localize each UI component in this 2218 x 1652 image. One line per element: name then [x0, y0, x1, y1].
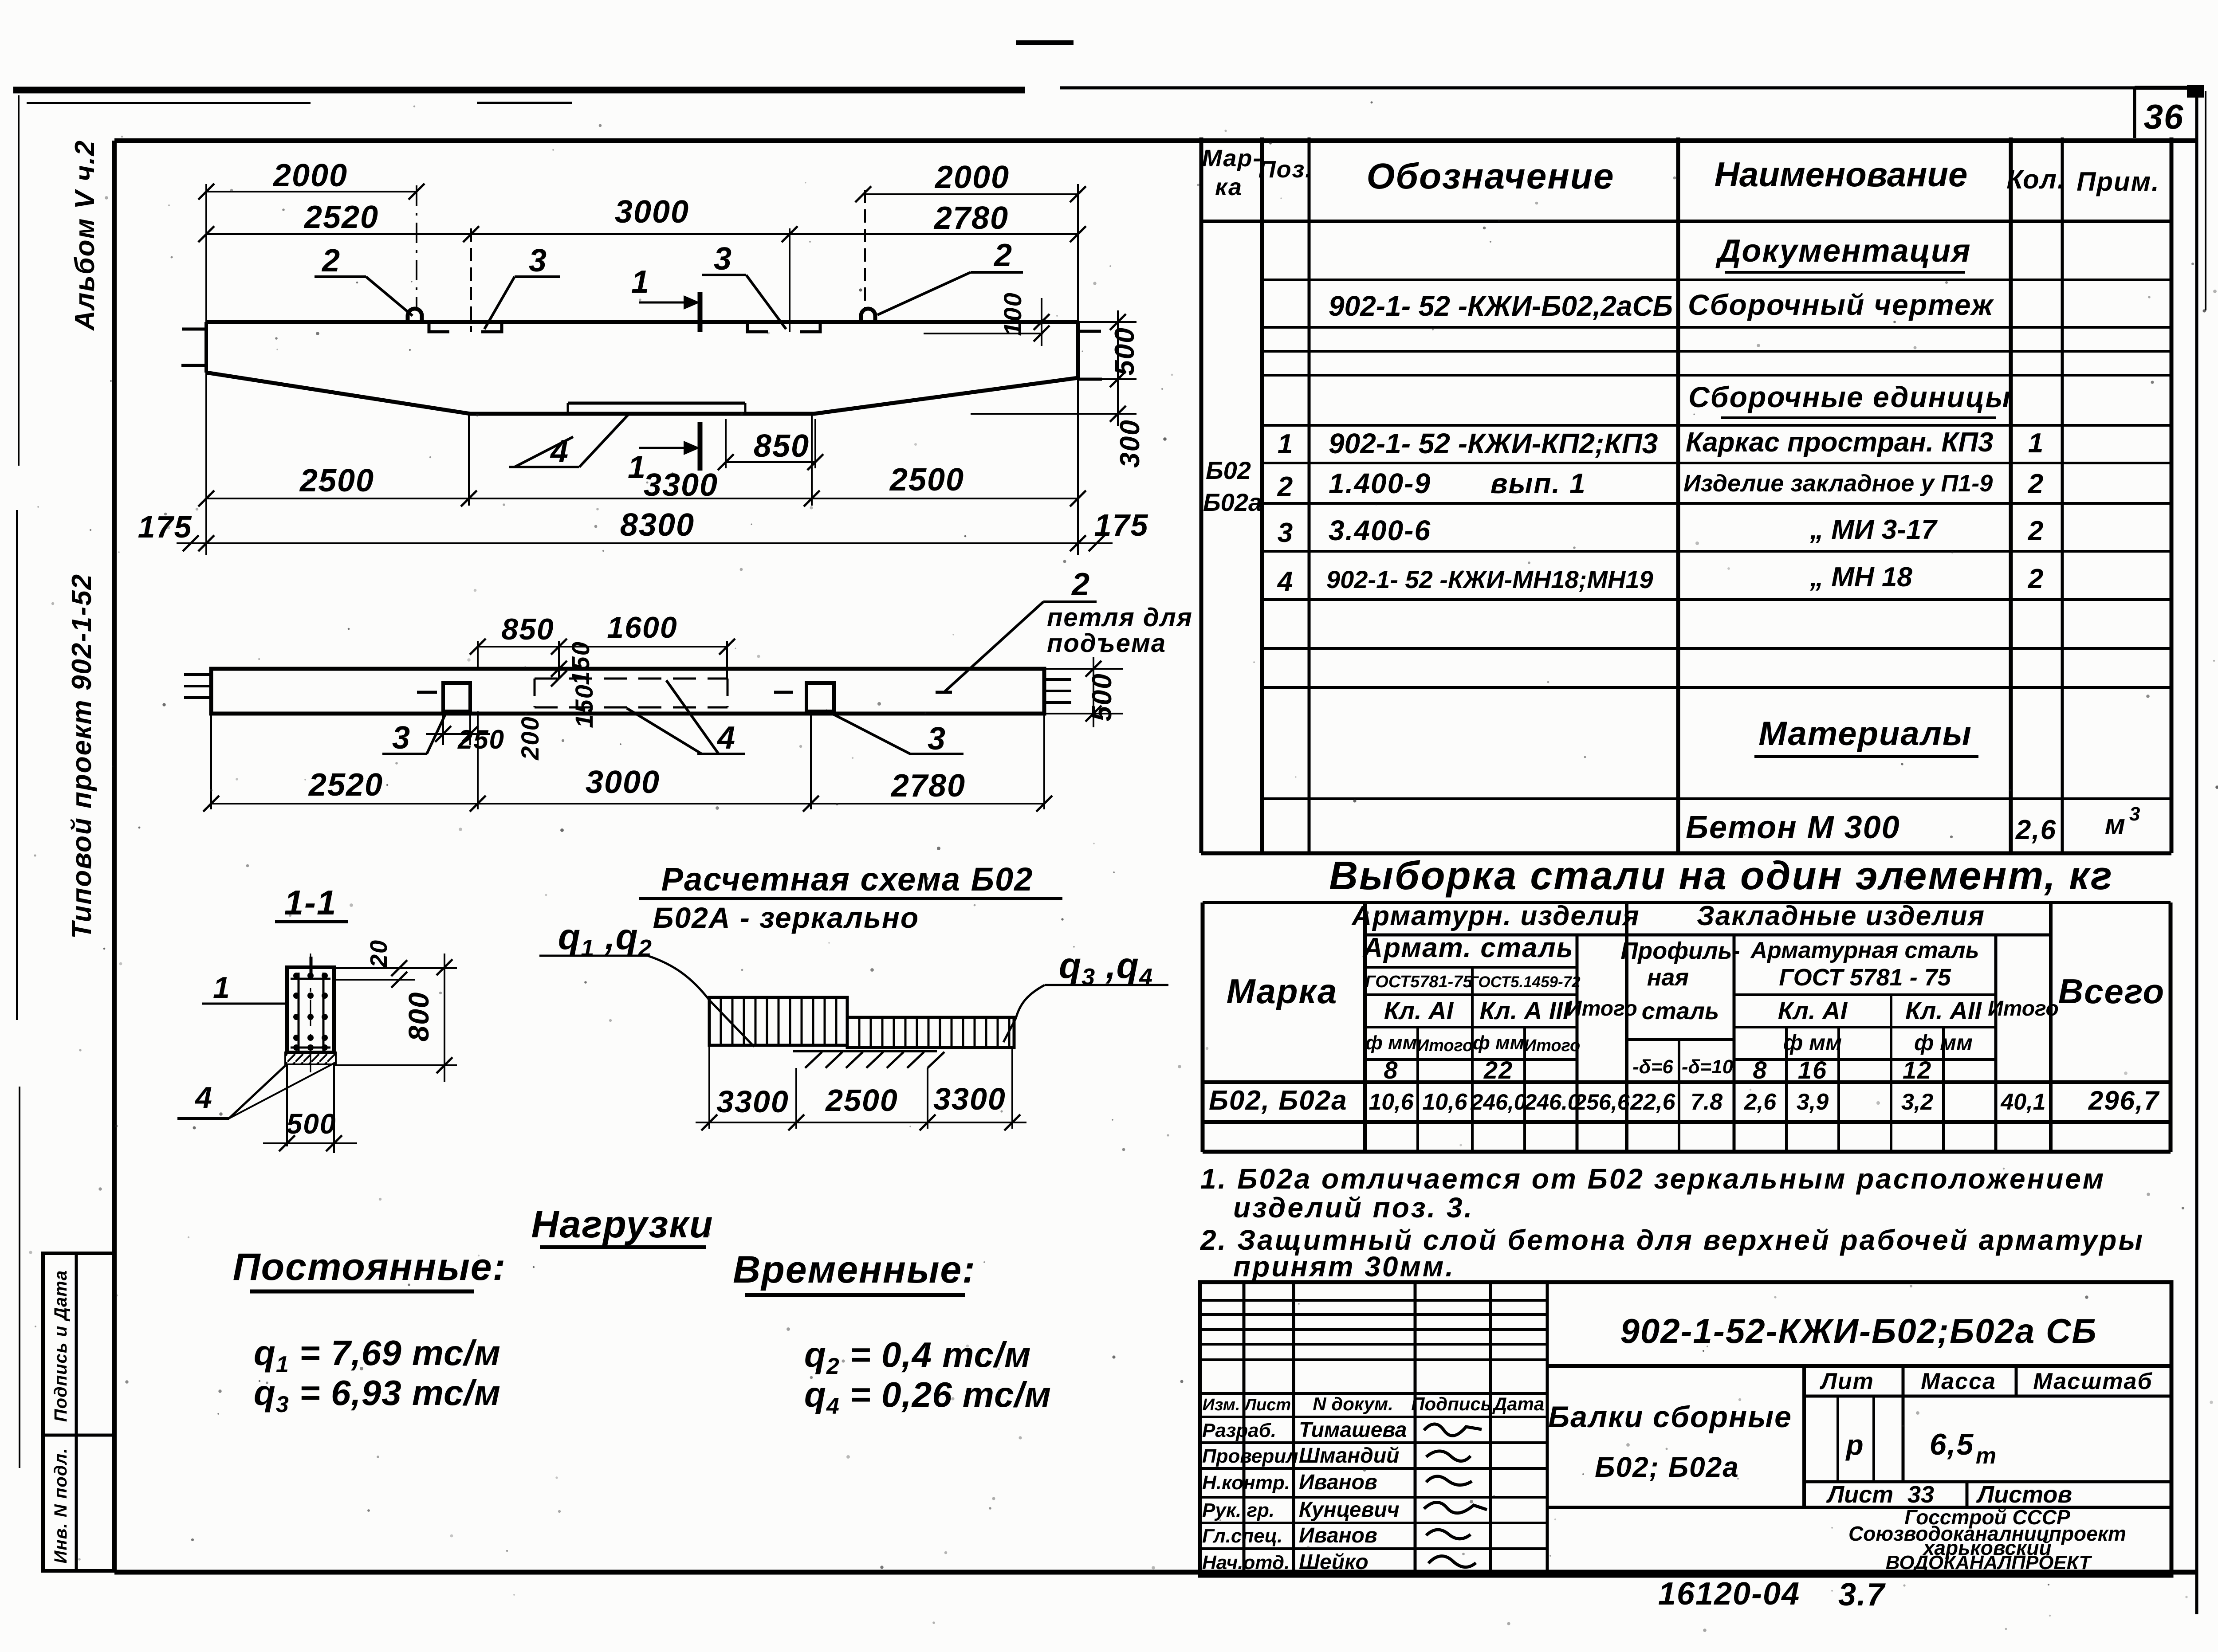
svg-text:1.400-9: 1.400-9 [1329, 467, 1431, 499]
svg-text:3: 3 [714, 241, 732, 277]
svg-text:Сборочные единицы: Сборочные единицы [1688, 381, 2011, 413]
svg-text:q1 = 7,69 тс/м: q1 = 7,69 тс/м [254, 1333, 501, 1377]
svg-text:3000: 3000 [615, 194, 689, 230]
svg-text:256,6: 256,6 [1573, 1090, 1630, 1114]
svg-text:2: 2 [993, 238, 1013, 273]
svg-text:1-1: 1-1 [284, 883, 337, 922]
svg-text:ф мм: ф мм [1473, 1032, 1524, 1054]
svg-text:300: 300 [1115, 419, 1145, 467]
svg-text:ная: ная [1647, 964, 1689, 991]
svg-text:Б02; Б02а: Б02; Б02а [1595, 1451, 1739, 1483]
svg-text:Всего: Всего [2058, 972, 2165, 1011]
svg-text:2520: 2520 [303, 200, 379, 235]
svg-text:Кл. АI: Кл. АI [1384, 997, 1454, 1024]
svg-text:902-1- 52 -КЖИ-МН18;МН19: 902-1- 52 -КЖИ-МН18;МН19 [1326, 565, 1653, 593]
svg-text:Итого: Итого [1524, 1036, 1580, 1055]
svg-text:Б02, Б02а: Б02, Б02а [1209, 1085, 1348, 1116]
svg-text:Рук. гр.: Рук. гр. [1202, 1499, 1274, 1521]
svg-text:1: 1 [213, 971, 231, 1005]
svg-text:500: 500 [287, 1108, 337, 1140]
svg-text:подъема: подъема [1047, 629, 1166, 658]
svg-text:1. Б02а отличается от Б02 зерк: 1. Б02а отличается от Б02 зеркальным рас… [1200, 1163, 2105, 1195]
svg-text:3,9: 3,9 [1797, 1089, 1829, 1115]
svg-text:2: 2 [2028, 564, 2044, 594]
svg-text:Наименование: Наименование [1715, 155, 1968, 194]
svg-text:Подпись и Дата: Подпись и Дата [51, 1270, 71, 1422]
svg-text:1: 1 [2028, 428, 2044, 459]
svg-text:принят 30мм.: принят 30мм. [1233, 1251, 1455, 1283]
svg-text:Изделие закладное у П1-9: Изделие закладное у П1-9 [1683, 470, 1993, 497]
svg-text:Типовой проект 902-1-52: Типовой проект 902-1-52 [67, 573, 97, 939]
svg-text:3: 3 [1278, 518, 1294, 548]
svg-text:Кл. А III: Кл. А III [1479, 997, 1570, 1024]
svg-text:Нач.отд.: Нач.отд. [1202, 1552, 1290, 1574]
svg-text:2500: 2500 [825, 1083, 898, 1118]
svg-text:850: 850 [501, 612, 554, 646]
svg-text:3: 3 [2129, 803, 2141, 825]
svg-text:22,6: 22,6 [1630, 1089, 1675, 1115]
svg-text:2: 2 [1071, 567, 1090, 602]
svg-text:33: 33 [1907, 1481, 1934, 1508]
svg-text:Поз.: Поз. [1258, 156, 1313, 183]
svg-text:2: 2 [1277, 471, 1294, 502]
svg-text:7.8: 7.8 [1691, 1089, 1722, 1115]
svg-text:Балки сборные: Балки сборные [1548, 1400, 1792, 1434]
svg-text:Кунцевич: Кунцевич [1299, 1498, 1400, 1522]
svg-text:8300: 8300 [620, 507, 695, 543]
svg-text:Арматурн. изделия: Арматурн. изделия [1351, 901, 1640, 931]
svg-text:850: 850 [754, 428, 810, 464]
svg-text:20: 20 [366, 939, 392, 968]
svg-text:ф мм: ф мм [1365, 1032, 1417, 1054]
svg-text:8: 8 [1384, 1056, 1398, 1084]
svg-text:Разраб.: Разраб. [1202, 1420, 1276, 1441]
svg-text:250: 250 [457, 725, 505, 754]
svg-text:Изм.: Изм. [1203, 1396, 1240, 1414]
svg-text:2: 2 [2028, 469, 2044, 499]
svg-text:22: 22 [1483, 1056, 1513, 1084]
svg-text:150: 150 [566, 641, 594, 685]
svg-text:Иванов: Иванов [1299, 1471, 1377, 1494]
svg-text:ВОДОКАНАЛПРОЕКТ: ВОДОКАНАЛПРОЕКТ [1886, 1552, 2092, 1574]
svg-text:„ МН 18: „ МН 18 [1809, 562, 1912, 593]
svg-text:петля для: петля для [1047, 603, 1193, 632]
svg-text:4: 4 [716, 720, 736, 756]
svg-text:500: 500 [1087, 673, 1117, 721]
svg-text:2500: 2500 [299, 463, 374, 498]
svg-text:Лист: Лист [1826, 1481, 1893, 1508]
svg-text:246,0: 246,0 [1470, 1090, 1526, 1114]
svg-text:q4 = 0,26 тс/м: q4 = 0,26 тс/м [804, 1375, 1051, 1419]
svg-text:16: 16 [1798, 1056, 1827, 1084]
svg-text:Лист: Лист [1243, 1396, 1291, 1414]
svg-text:„ МИ 3-17: „ МИ 3-17 [1809, 514, 1938, 545]
svg-text:Материалы: Материалы [1758, 715, 1972, 753]
svg-text:175: 175 [1094, 508, 1149, 542]
svg-text:2000: 2000 [934, 160, 1010, 195]
svg-text:246.0: 246.0 [1524, 1090, 1580, 1114]
svg-text:2780: 2780 [890, 768, 966, 804]
svg-text:3: 3 [392, 720, 411, 756]
svg-text:3: 3 [928, 721, 946, 757]
svg-text:3.400-6: 3.400-6 [1329, 514, 1431, 546]
svg-text:2,6: 2,6 [1744, 1089, 1777, 1115]
svg-text:Кол.: Кол. [2006, 165, 2065, 194]
svg-text:3: 3 [529, 243, 547, 279]
svg-text:Инв. N подл.: Инв. N подл. [51, 1448, 71, 1564]
svg-text:-δ=10: -δ=10 [1682, 1056, 1734, 1078]
svg-text:Итого: Итого [1566, 997, 1637, 1020]
svg-text:Масштаб: Масштаб [2033, 1369, 2152, 1394]
svg-text:4: 4 [1277, 566, 1294, 597]
svg-text:изделий поз. 3.: изделий поз. 3. [1233, 1192, 1474, 1224]
svg-text:Сборочный чертеж: Сборочный чертеж [1688, 288, 1994, 321]
svg-text:4: 4 [194, 1081, 213, 1114]
svg-text:100: 100 [999, 292, 1026, 336]
svg-text:296,7: 296,7 [2088, 1086, 2160, 1115]
svg-text:Лит: Лит [1819, 1369, 1874, 1394]
svg-text:200: 200 [516, 716, 544, 760]
svg-text:Бетон М 300: Бетон М 300 [1686, 810, 1900, 845]
svg-text:3.7: 3.7 [1838, 1577, 1886, 1613]
svg-text:Масса: Масса [1921, 1369, 1996, 1394]
svg-text:q3 ,q4: q3 ,q4 [1059, 946, 1153, 990]
svg-text:Б02: Б02 [1206, 456, 1251, 484]
svg-text:2780: 2780 [933, 200, 1009, 236]
svg-text:сталь: сталь [1642, 998, 1719, 1024]
svg-text:902-1-52-КЖИ-Б02;Б02а СБ: 902-1-52-КЖИ-Б02;Б02а СБ [1620, 1311, 2097, 1350]
svg-text:Б02а: Б02а [1203, 488, 1262, 516]
svg-text:40,1: 40,1 [2000, 1089, 2045, 1115]
svg-text:N докум.: N докум. [1313, 1393, 1393, 1414]
svg-text:902-1- 52 -КЖИ-Б02,2аСБ: 902-1- 52 -КЖИ-Б02,2аСБ [1329, 290, 1673, 322]
svg-text:3300: 3300 [933, 1082, 1006, 1116]
svg-text:500: 500 [1109, 327, 1140, 375]
svg-text:т: т [1976, 1443, 1997, 1469]
svg-text:ка: ка [1215, 174, 1243, 200]
svg-text:800: 800 [403, 992, 435, 1042]
svg-text:-δ=6: -δ=6 [1632, 1056, 1673, 1078]
svg-text:Шейко: Шейко [1299, 1550, 1369, 1574]
svg-text:1: 1 [631, 264, 650, 300]
svg-text:Выборка стали на один элем: Выборка стали на один элемент, кг [1329, 854, 2113, 898]
svg-text:ГОСТ 5781 - 75: ГОСТ 5781 - 75 [1779, 964, 1951, 991]
svg-text:Закладные изделия: Закладные изделия [1697, 901, 1985, 931]
svg-text:1600: 1600 [607, 611, 677, 644]
svg-text:3000: 3000 [586, 765, 660, 800]
svg-text:902-1- 52 -КЖИ-КП2;КП3: 902-1- 52 -КЖИ-КП2;КП3 [1329, 428, 1658, 459]
svg-text:2500: 2500 [889, 462, 964, 498]
svg-text:1: 1 [1278, 429, 1294, 459]
svg-text:м: м [2105, 809, 2126, 840]
svg-text:8: 8 [1753, 1056, 1767, 1084]
svg-text:2000: 2000 [272, 158, 348, 193]
svg-text:10,6: 10,6 [1369, 1089, 1414, 1115]
svg-text:Шмандий: Шмандий [1299, 1444, 1400, 1468]
svg-text:Обозначение: Обозначение [1366, 156, 1614, 196]
svg-text:3300: 3300 [644, 467, 718, 503]
svg-text:3,2: 3,2 [1901, 1089, 1933, 1115]
svg-text:Каркас простран. КП3: Каркас простран. КП3 [1686, 427, 1994, 458]
svg-text:12: 12 [1903, 1056, 1932, 1084]
svg-text:q3 = 6,93 тс/м: q3 = 6,93 тс/м [254, 1373, 501, 1417]
svg-text:2520: 2520 [308, 767, 383, 803]
svg-text:Профиль-: Профиль- [1620, 938, 1740, 964]
svg-text:Документация: Документация [1715, 233, 1971, 269]
svg-text:ГОСТ5.1459-72: ГОСТ5.1459-72 [1469, 973, 1581, 991]
svg-text:2: 2 [321, 243, 341, 279]
svg-text:Альбом V ч.2: Альбом V ч.2 [70, 140, 100, 331]
svg-text:3300: 3300 [716, 1084, 789, 1119]
svg-text:Н.контр.: Н.контр. [1202, 1472, 1290, 1494]
svg-text:150: 150 [570, 684, 598, 728]
svg-text:Итого: Итого [1988, 997, 2059, 1020]
svg-text:ф мм: ф мм [1783, 1030, 1842, 1055]
svg-text:Гл.спец.: Гл.спец. [1202, 1525, 1282, 1547]
svg-text:Мар-: Мар- [1202, 145, 1262, 172]
svg-text:Армат. сталь: Армат. сталь [1362, 933, 1573, 963]
svg-text:Подпись: Подпись [1411, 1393, 1491, 1414]
svg-text:Прим.: Прим. [2076, 167, 2160, 196]
svg-text:Проверил: Проверил [1202, 1445, 1298, 1467]
svg-text:Б02А - зеркально: Б02А - зеркально [653, 901, 919, 934]
svg-text:2: 2 [2028, 516, 2044, 546]
svg-text:6,5: 6,5 [1930, 1428, 1974, 1461]
svg-text:Постоянные:: Постоянные: [233, 1246, 507, 1288]
svg-text:Кл. АII: Кл. АII [1905, 997, 1982, 1024]
svg-text:вып. 1: вып. 1 [1490, 467, 1586, 499]
svg-text:Листов: Листов [1976, 1481, 2072, 1508]
svg-text:ф мм: ф мм [1914, 1030, 1973, 1055]
svg-text:36: 36 [2144, 97, 2184, 136]
svg-text:Дата: Дата [1492, 1393, 1544, 1414]
svg-text:Тимашева: Тимашева [1299, 1418, 1407, 1442]
svg-text:Нагрузки: Нагрузки [531, 1203, 713, 1246]
svg-text:Расчетная схема Б02: Расчетная схема Б02 [661, 861, 1034, 898]
svg-text:Кл. АI: Кл. АI [1778, 997, 1848, 1024]
svg-text:Временные:: Временные: [733, 1248, 976, 1291]
svg-text:10,6: 10,6 [1422, 1089, 1467, 1115]
svg-text:Итого: Итого [1417, 1036, 1473, 1055]
svg-text:Иванов: Иванов [1299, 1524, 1377, 1547]
svg-text:ГОСТ5781-75: ГОСТ5781-75 [1365, 973, 1472, 991]
svg-text:Марка: Марка [1227, 972, 1338, 1011]
svg-text:р: р [1845, 1429, 1864, 1461]
svg-text:16120-04: 16120-04 [1658, 1576, 1800, 1612]
svg-text:Арматурная сталь: Арматурная сталь [1750, 938, 1979, 963]
